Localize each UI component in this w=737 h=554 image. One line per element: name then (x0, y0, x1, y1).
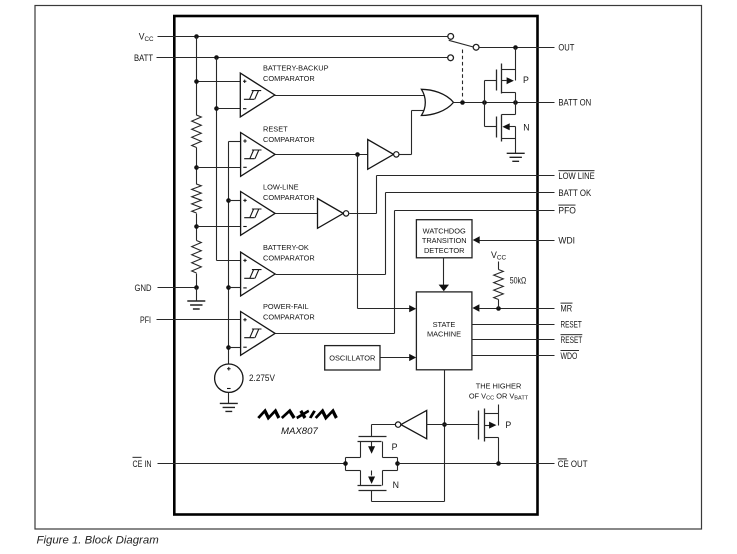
arrow WDI into watchdog detector (473, 236, 480, 243)
OR gate U6 (421, 89, 453, 115)
wire ref to battery-ok comparator - (229, 287, 241, 289)
ground at reference (220, 403, 238, 411)
svg-text:COMPARATOR: COMPARATOR (263, 313, 315, 322)
wire 2.275V reference vertical (229, 142, 241, 364)
svg-text:P: P (505, 420, 511, 430)
wire R1 node to reset comparator - (197, 167, 241, 169)
svg-text:BATT OK: BATT OK (558, 188, 591, 198)
switch S1 VCC contact (448, 34, 454, 40)
svg-text:RESET: RESET (263, 125, 288, 134)
wire power-fail output to PFO pin (276, 211, 555, 334)
svg-text:VCC: VCC (491, 250, 506, 262)
wire R3 to GND node (196, 274, 198, 288)
svg-text:LOW LINE: LOW LINE (558, 171, 594, 181)
wire reference to ground (228, 393, 230, 404)
svg-text:WDI: WDI (558, 235, 575, 245)
wire pass gate right leg (397, 458, 399, 471)
pin GND (135, 283, 197, 293)
wire OR gate output / BATT ON line (454, 102, 555, 104)
wire state machine to CE control (372, 370, 445, 502)
svg-text:50kΩ: 50kΩ (510, 276, 527, 286)
node Q3 to CE OUT (496, 461, 501, 466)
svg-text:GND: GND (135, 283, 152, 293)
svg-text:RESET: RESET (561, 319, 583, 329)
wire VCC vertical (196, 37, 198, 116)
svg-text:COMPARATOR: COMPARATOR (263, 253, 315, 262)
svg-text:MR: MR (561, 303, 573, 313)
op-amp reset comparator (241, 133, 276, 177)
wire inverter U3 output to LOW LINE pin (350, 176, 555, 214)
wire inverter U4 output to P gate (372, 425, 396, 437)
svg-text:DETECTOR: DETECTOR (424, 246, 465, 255)
svg-text:WATCHDOG: WATCHDOG (423, 226, 466, 235)
arrow oscillator into state machine (409, 354, 416, 361)
svg-text:MACHINE: MACHINE (427, 330, 461, 339)
inverter U4 CE (395, 410, 426, 438)
wire reset output down to state machine (358, 155, 410, 309)
voltage reference 2.275V (215, 364, 243, 392)
svg-text:COMPARATOR: COMPARATOR (263, 74, 315, 83)
svg-text:N: N (393, 480, 399, 490)
svg-text:LOW-LINE: LOW-LINE (263, 183, 299, 192)
svg-text:THE HIGHER: THE HIGHER (476, 381, 522, 390)
wire inverter U4 input (427, 424, 445, 426)
node OUT to PFET (513, 45, 518, 50)
wire RESET-bar line (472, 339, 555, 341)
switch S1 arm (449, 40, 474, 47)
dashed control line to switch (462, 50, 464, 100)
node BATT to backup comparator (214, 106, 219, 111)
wire battery-ok output to BATT OK pin (276, 193, 555, 275)
svg-text:P: P (523, 75, 529, 85)
pin CE IN (133, 457, 346, 469)
node BATT rail (214, 55, 219, 60)
pin CE OUT (558, 459, 588, 469)
svg-text:2.275V: 2.275V (249, 373, 275, 383)
ground at Q2 source (507, 153, 525, 161)
pin LOW LINE (558, 171, 594, 181)
transistor Q2 N-channel (485, 103, 516, 154)
arrow watchdog into state machine (439, 285, 449, 292)
svg-text:BATTERY-OK: BATTERY-OK (263, 243, 309, 252)
svg-text:BATT: BATT (134, 53, 154, 63)
svg-text:OUT: OUT (558, 43, 575, 53)
wire R1 to node (196, 148, 198, 185)
wire BATT vertical (217, 58, 241, 261)
resistor 50k (494, 270, 504, 300)
transistor Q3 P-channel CE pullup (445, 405, 499, 464)
label the higher of VCC or VBATT (469, 381, 529, 401)
pin PFO (558, 205, 576, 215)
pin WDO (561, 351, 580, 361)
ground at resistor chain (187, 301, 205, 309)
resistor R1 (192, 115, 202, 148)
svg-text:BATT ON: BATT ON (558, 97, 591, 107)
wire WDO line (472, 355, 555, 357)
node reset threshold (194, 165, 199, 170)
node MR pullup (496, 306, 501, 311)
MAXIM logo (258, 411, 338, 418)
wire low-line comparator output (276, 213, 318, 215)
svg-text:N: N (523, 123, 529, 133)
svg-text:WDO: WDO (561, 351, 578, 361)
watchdog transition detector block (416, 220, 472, 258)
wire CE OUT line (398, 463, 555, 465)
transistor Q5 N-channel pass gate (346, 471, 398, 491)
pin PFI (140, 315, 241, 325)
wire MR line (480, 308, 555, 310)
node reset output branch (355, 152, 360, 157)
op-amp battery-ok comparator (241, 252, 276, 296)
pin BATT (134, 53, 448, 63)
pin MR (561, 303, 573, 313)
wire backup comparator output to OR gate (275, 95, 427, 97)
node ref to low-line comparator (226, 198, 231, 203)
wire ref to low-line comparator + (229, 200, 241, 202)
wire RESET line (472, 324, 555, 326)
pin VCC (139, 31, 448, 43)
svg-text:OF VCC OR VBATT: OF VCC OR VBATT (469, 391, 529, 401)
svg-text:CE IN: CE IN (133, 459, 152, 469)
wire reset comparator output (276, 154, 368, 156)
svg-text:STATE: STATE (433, 320, 456, 329)
node OR output switch control (460, 100, 465, 105)
svg-text:COMPARATOR: COMPARATOR (263, 135, 315, 144)
svg-text:COMPARATOR: COMPARATOR (263, 193, 315, 202)
wire switch pole to OUT (480, 47, 555, 49)
transistor Q4 P-channel pass gate (346, 437, 398, 458)
wire R2 node to low-line comparator - (197, 226, 241, 228)
resistor R3 (192, 241, 202, 274)
svg-text:P: P (392, 442, 398, 452)
wire WDI input (480, 240, 555, 242)
svg-text:POWER-FAIL: POWER-FAIL (263, 302, 309, 311)
wire VCC to 50k resistor (498, 262, 500, 270)
svg-text:BATTERY-BACKUP: BATTERY-BACKUP (263, 63, 329, 72)
svg-text:PFI: PFI (140, 315, 151, 325)
pin RESET-bar (561, 335, 583, 345)
node CE IN pass gate (343, 461, 348, 466)
switch S1 pole contact (473, 44, 479, 50)
inverter U2 reset (368, 140, 399, 170)
svg-text:VCC: VCC (139, 31, 154, 43)
wire N gate lead (371, 491, 373, 502)
resistor R2 (192, 184, 202, 213)
node ref to battery-ok comparator (226, 285, 231, 290)
node PFET-NFET junction (513, 100, 518, 105)
inverter U3 low-line (318, 199, 349, 229)
svg-text:RESET: RESET (561, 335, 583, 345)
op-amp low-line comparator (241, 192, 276, 236)
wire oscillator to state machine (381, 357, 410, 359)
op-amp battery-backup comparator (240, 73, 274, 117)
wire R2 to node (196, 214, 198, 241)
svg-text:CE OUT: CE OUT (558, 459, 588, 469)
switch S1 BATT contact (448, 55, 454, 61)
IC boundary box (174, 16, 537, 515)
arrow into state machine from reset line (409, 305, 416, 312)
wire watchdog to state machine (443, 258, 445, 286)
node VCC tap (194, 79, 199, 84)
wire ref to power-fail comparator - (229, 347, 241, 349)
wire pass gate left leg (345, 458, 347, 471)
transistor Q1 P-channel (485, 48, 516, 103)
arrow MR into state machine (472, 304, 479, 311)
node GND (194, 285, 199, 290)
svg-text:Figure 1. Block Diagram: Figure 1. Block Diagram (37, 535, 159, 547)
node CE control to inverter (442, 422, 447, 427)
node CE OUT pass gate (395, 461, 400, 466)
state machine block (416, 292, 472, 370)
svg-text:TRANSITION: TRANSITION (422, 236, 467, 245)
wire 50k resistor to MR (498, 300, 500, 309)
svg-text:MAX807: MAX807 (281, 426, 318, 437)
node gate tie (482, 100, 487, 105)
wire GND stem (196, 288, 198, 302)
oscillator block (325, 346, 380, 370)
node low-line threshold (194, 224, 199, 229)
svg-text:PFO: PFO (558, 205, 576, 215)
wire inverter U2 output to OR gate (400, 111, 426, 155)
op-amp power-fail comparator (241, 312, 276, 356)
wire BATT to backup comparator - (217, 108, 241, 110)
node ref to power-fail comparator (226, 345, 231, 350)
node VCC rail (194, 34, 199, 39)
svg-text:OSCILLATOR: OSCILLATOR (329, 354, 375, 363)
wire VCC to backup comparator + (197, 81, 241, 83)
